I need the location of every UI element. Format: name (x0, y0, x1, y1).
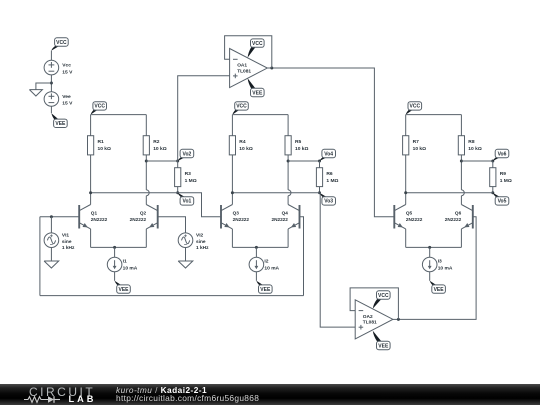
wire (461, 160, 492, 162)
svg-text:I2: I2 (264, 259, 268, 265)
node junction (113, 246, 116, 249)
svg-text:1 kHz: 1 kHz (196, 245, 209, 251)
wire Vo3 to OA2 + input (320, 193, 355, 327)
wire Q1 base (40, 216, 79, 218)
wire with hop over Vo wire (145, 155, 147, 190)
svg-text:R2: R2 (153, 139, 160, 145)
wire (50, 106, 52, 113)
svg-text:TL081: TL081 (237, 68, 251, 74)
resistor R3 1 M (175, 168, 181, 187)
wire Vo5 horizontal (406, 192, 493, 194)
svg-text:VEE: VEE (118, 287, 129, 293)
wire (114, 272, 116, 281)
transistor Q3 (220, 205, 222, 229)
wire OA1 output (267, 67, 272, 69)
wire emitter rail (232, 246, 288, 248)
wire (50, 75, 52, 92)
flag VCC (R1 rail) (91, 109, 99, 114)
svg-text:I1: I1 (123, 259, 127, 265)
wire with hop over Vo wire (460, 155, 462, 190)
wire (319, 161, 321, 168)
svg-text:R8: R8 (468, 139, 475, 145)
wire (231, 115, 233, 136)
wire (185, 248, 187, 262)
node Vo3 junction (318, 191, 321, 194)
footer bar (0, 384, 540, 405)
node Vo6 junction (491, 160, 494, 163)
svg-text:VEE: VEE (55, 121, 66, 127)
wire (492, 161, 494, 168)
node OA1 output junction (270, 67, 273, 70)
wire Vo3 horizontal (232, 192, 319, 194)
wire (231, 155, 233, 205)
node Vo2 junction (176, 160, 179, 163)
svg-text:Vo2: Vo2 (182, 151, 191, 157)
wire to ground (36, 83, 52, 90)
node Vo6 junction (460, 160, 463, 163)
flag VEE (I3) (430, 281, 438, 286)
svg-text:OA1: OA1 (237, 63, 247, 69)
svg-text:VCC: VCC (252, 41, 263, 47)
resistor R5 10 k (285, 136, 291, 155)
wire Vo1 to Q3 base (178, 193, 221, 217)
svg-text:sine: sine (196, 239, 206, 245)
svg-text:Q5: Q5 (406, 210, 413, 215)
voltage source Vee 15 V (44, 92, 59, 107)
svg-text:R6: R6 (326, 171, 333, 177)
wire (177, 161, 179, 168)
wire left rail down (VI1 node) (39, 217, 41, 296)
wire (405, 155, 407, 205)
wire OA1 feedback loop (225, 36, 272, 68)
svg-text:I3: I3 (438, 259, 442, 265)
svg-text:10 mA: 10 mA (264, 266, 279, 272)
svg-text:VCC: VCC (236, 104, 247, 110)
flag VCC (R4 rail) (232, 109, 240, 114)
svg-text:sine: sine (62, 239, 72, 245)
wire (287, 229, 289, 248)
flag Vo3 (320, 193, 328, 198)
svg-text:VEE: VEE (378, 343, 389, 349)
wire (319, 187, 321, 193)
wire emitter rail (91, 246, 147, 248)
svg-text:15 V: 15 V (62, 69, 73, 75)
svg-text:Vcc: Vcc (62, 63, 71, 69)
wire (429, 247, 431, 257)
node junction VI1 (50, 215, 53, 218)
wire emitter rail (406, 246, 462, 248)
svg-text:2N2222: 2N2222 (271, 217, 288, 222)
resistor R2 10 k (143, 136, 149, 155)
wire (145, 229, 147, 248)
flag VEE (OA2) (373, 331, 382, 342)
wire (90, 115, 92, 136)
source VI2 sine 1 kHz (178, 233, 193, 248)
svg-text:10 kΩ: 10 kΩ (98, 146, 112, 152)
source VI1 sine 1 kHz (44, 233, 59, 248)
resistor R9 1 M (490, 168, 496, 187)
current source I3 10 mA (422, 257, 437, 272)
wire OA2 output (393, 318, 399, 320)
wire (114, 247, 116, 257)
flag VCC (OA1) (248, 47, 256, 58)
node junction (50, 82, 53, 85)
flag Vo5 (493, 193, 501, 198)
footer title text (116, 385, 207, 395)
flag Vo2 (178, 157, 186, 161)
transistor Q2 (157, 205, 159, 229)
wire long feedback bottom (40, 295, 304, 297)
wire (50, 51, 52, 61)
svg-text:10 kΩ: 10 kΩ (153, 146, 167, 152)
svg-text:Q2: Q2 (140, 210, 147, 215)
wire OA2 feedback loop (350, 288, 398, 320)
svg-text:R7: R7 (413, 139, 420, 145)
node OA2 output junction (397, 318, 400, 321)
flag VEE (OA1) (248, 78, 256, 89)
node Vo4 junction (318, 160, 321, 163)
op-amp OA2 TL081 (355, 300, 393, 339)
svg-text:10 kΩ: 10 kΩ (239, 146, 253, 152)
svg-text:Vo6: Vo6 (498, 151, 507, 157)
flag Vo1 (178, 193, 186, 198)
flag VEE (power) (51, 113, 59, 120)
wire (288, 160, 319, 162)
svg-text:Vo1: Vo1 (182, 199, 191, 205)
wire OA1 output to Q5 base (272, 68, 395, 217)
flag Vo6 (493, 157, 501, 161)
svg-text:2N2222: 2N2222 (445, 217, 462, 222)
transistor Q6 (472, 205, 474, 229)
svg-text:Vo3: Vo3 (324, 199, 333, 205)
svg-text:VEE: VEE (260, 287, 271, 293)
flag VCC (power) (51, 46, 60, 51)
node junction (89, 191, 92, 194)
svg-text:Q1: Q1 (91, 210, 98, 215)
voltage source Vcc 15 V (44, 60, 59, 75)
wire (50, 248, 52, 262)
op-amp OA1 TL081 (230, 49, 268, 88)
wire VCC rail (91, 114, 147, 116)
svg-text:OA2: OA2 (363, 314, 373, 320)
ground (VI2) (178, 261, 193, 268)
svg-text:VI1: VI1 (62, 233, 70, 239)
svg-text:VEE: VEE (434, 287, 445, 293)
svg-text:R4: R4 (239, 139, 246, 145)
node junction (404, 191, 407, 194)
wire (460, 115, 462, 136)
svg-text:10 kΩ: 10 kΩ (413, 146, 427, 152)
svg-text:R3: R3 (185, 171, 192, 177)
svg-text:VEE: VEE (252, 90, 263, 96)
flag VCC (R7 rail) (406, 109, 414, 114)
flag Vo4 (320, 157, 328, 161)
wire (177, 187, 179, 193)
resistor R1 10 k (88, 136, 94, 155)
wire (405, 115, 407, 136)
svg-text:10 kΩ: 10 kΩ (468, 146, 482, 152)
svg-text:1 MΩ: 1 MΩ (326, 178, 338, 184)
svg-text:TL081: TL081 (363, 320, 377, 326)
footer url text (116, 393, 259, 403)
CircuitLab logo (29, 385, 95, 399)
svg-text:10 kΩ: 10 kΩ (295, 146, 309, 152)
wire (50, 217, 52, 233)
wire Q6 base to OA2 output (398, 217, 476, 320)
node Vo2 junction (145, 160, 148, 163)
resistor R6 1 M (316, 168, 322, 187)
svg-text:VI2: VI2 (196, 233, 204, 239)
resistor R4 10 k (229, 136, 235, 155)
flag VEE (I2) (256, 281, 264, 286)
svg-text:1 MΩ: 1 MΩ (185, 178, 197, 184)
wire Q2 base to VI2 (158, 217, 186, 233)
svg-text:1 MΩ: 1 MΩ (500, 178, 512, 184)
wire (231, 229, 233, 248)
svg-text:R5: R5 (295, 139, 302, 145)
node junction (428, 246, 431, 249)
current source I1 10 mA (107, 257, 122, 272)
transistor Q1 (78, 205, 80, 229)
node Vo1 junction (176, 191, 179, 194)
wire Vo1 horizontal (91, 192, 178, 194)
wire (460, 229, 462, 248)
svg-text:2N2222: 2N2222 (130, 217, 147, 222)
svg-text:VCC: VCC (410, 104, 421, 110)
wire Q4 base drop (300, 217, 304, 296)
node Vo5 junction (491, 191, 494, 194)
resistor R7 10 k (403, 136, 409, 155)
node junction (255, 246, 258, 249)
wire VCC rail (232, 114, 288, 116)
wire (255, 272, 257, 281)
node Vo4 junction (287, 160, 290, 163)
svg-text:2N2222: 2N2222 (91, 217, 108, 222)
svg-text:Vee: Vee (62, 94, 71, 100)
node junction (231, 191, 234, 194)
transistor Q5 (393, 205, 395, 229)
wire OA1 + input (178, 76, 230, 161)
wire VCC rail (406, 114, 462, 116)
svg-text:2N2222: 2N2222 (406, 217, 423, 222)
current source I2 10 mA (249, 257, 264, 272)
wire (287, 115, 289, 136)
wire (90, 229, 92, 248)
svg-text:Q3: Q3 (233, 210, 240, 215)
wire (255, 247, 257, 257)
wire (146, 160, 177, 162)
svg-text:R9: R9 (500, 171, 507, 177)
svg-text:Q4: Q4 (282, 210, 289, 215)
wire (405, 229, 407, 248)
svg-text:10 mA: 10 mA (123, 266, 138, 272)
flag VEE (I1) (115, 281, 123, 286)
wire (90, 155, 92, 205)
resistor R8 10 k (458, 136, 464, 155)
wire (492, 187, 494, 193)
svg-text:VCC: VCC (94, 104, 105, 110)
wire (429, 272, 431, 281)
flag VCC (OA2) (373, 299, 382, 309)
svg-text:10 mA: 10 mA (438, 266, 453, 272)
wire (145, 115, 147, 136)
transistor Q4 (299, 205, 301, 229)
ground (VI1) (44, 261, 59, 268)
svg-text:Vo5: Vo5 (498, 199, 507, 205)
svg-text:15 V: 15 V (62, 101, 73, 107)
svg-text:2N2222: 2N2222 (233, 217, 250, 222)
svg-text:1 kHz: 1 kHz (62, 245, 75, 251)
svg-text:R1: R1 (98, 139, 105, 145)
wire with hop over Vo wire (287, 155, 289, 190)
svg-text:VCC: VCC (56, 40, 67, 46)
svg-text:Q6: Q6 (455, 210, 462, 215)
svg-text:VCC: VCC (378, 293, 389, 299)
ground (29, 90, 42, 96)
svg-text:Vo4: Vo4 (324, 151, 333, 157)
